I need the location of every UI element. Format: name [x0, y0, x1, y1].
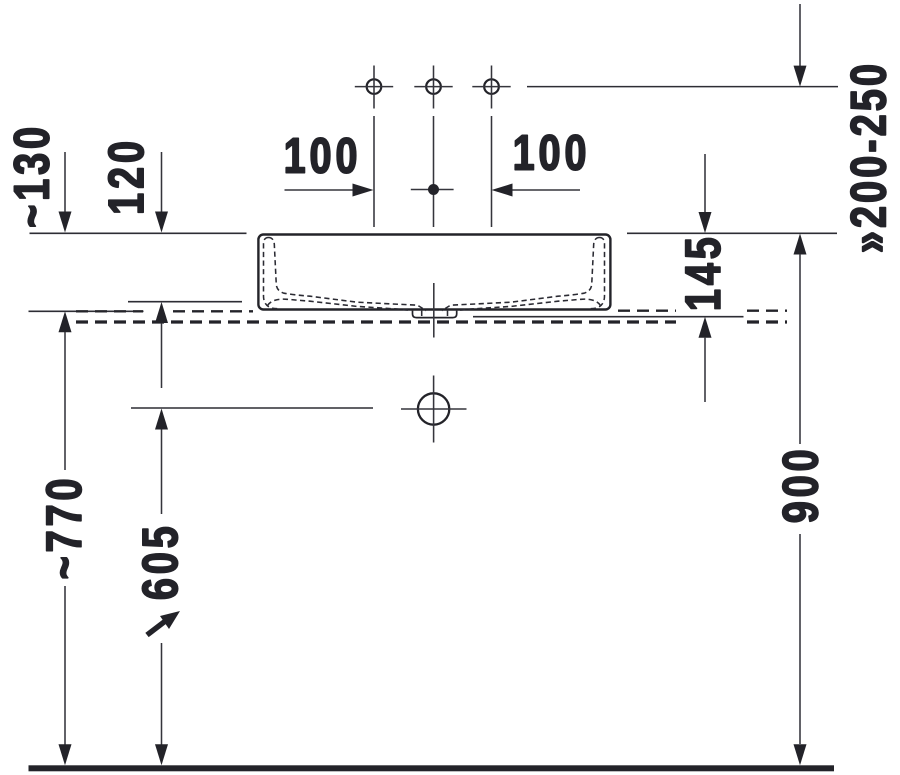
dim column ~130 shaft upper — [64, 152, 66, 212]
floor line — [29, 765, 835, 771]
dim column 120 shaft upper — [161, 152, 163, 212]
dim ~130 arrowhead down — [59, 212, 72, 233]
tap hole 2 crosshair horizontal — [414, 86, 452, 88]
drain tick right — [447, 311, 449, 316]
tap hole 2 crosshair vertical — [433, 66, 435, 109]
dim 900 arrowhead down floor — [794, 744, 807, 765]
label ~130 — [14, 129, 49, 227]
label 100 right — [515, 135, 585, 170]
dim ~770 shaft upper — [64, 332, 66, 470]
dim ~770 arrowhead up — [59, 311, 72, 332]
dim 120 lower stub — [161, 323, 163, 388]
dim 605 arrowhead down floor — [155, 744, 168, 765]
dashed min level line left — [76, 310, 143, 312]
drain outlet crosshair horizontal — [401, 408, 467, 410]
dim 145 lower stub — [704, 338, 706, 402]
basin top reference line right — [627, 232, 837, 234]
dim 200-250 shaft top — [799, 4, 801, 66]
tap hole 1 crosshair horizontal — [355, 86, 393, 88]
dim 145 arrowhead up — [699, 317, 712, 338]
drain outlet circle — [418, 393, 449, 424]
dimension 100 left line — [285, 189, 357, 191]
tap hole 1 crosshair vertical — [373, 66, 375, 109]
dashed min level line right b — [747, 310, 787, 312]
dim ~770 arrowhead down floor — [59, 744, 72, 765]
label 145 — [686, 238, 721, 308]
label 120 — [108, 143, 143, 213]
bowl inner wall right outer — [591, 238, 605, 309]
drain tick left — [421, 311, 423, 316]
label 605 — [142, 527, 177, 598]
drain outlet crosshair vertical — [433, 376, 435, 443]
bowl floor hidden edge right — [457, 299, 601, 310]
dim 605 shaft upper — [161, 430, 163, 515]
countertop line right of drain — [473, 316, 744, 318]
extension line hole 2 — [433, 116, 435, 227]
dimension origin dot line — [411, 189, 454, 191]
tap hole reference line — [527, 86, 838, 88]
dim 200-250 arrowhead down — [794, 66, 807, 87]
dashed min level line right a — [618, 310, 676, 312]
label ~770 — [46, 480, 81, 578]
tap hole 1 — [367, 79, 382, 94]
dim column 145 shaft upper — [704, 154, 706, 213]
label 100 left — [286, 138, 356, 173]
drain flange — [413, 311, 457, 318]
extension line hole 3 — [491, 116, 493, 227]
basin outline — [258, 235, 610, 310]
dimension 100 right arrowhead — [492, 184, 513, 197]
bowl floor hidden edge left — [268, 299, 412, 310]
dim 120 arrowhead down — [155, 212, 168, 233]
dimension 100 right line — [509, 189, 580, 191]
tap hole 2 — [426, 79, 441, 94]
bowl inner wall left outer — [264, 238, 278, 309]
bowl inner wall right inner and floor — [442, 238, 600, 311]
dashed max level line main — [76, 320, 676, 323]
drain outlet height line — [131, 407, 373, 409]
dimension origin dot — [428, 184, 439, 195]
dim 120 arrowhead up — [155, 302, 168, 323]
tap hole 3 — [484, 79, 499, 94]
dim 605 break symbol arrowhead — [160, 611, 180, 629]
dashed max level line right — [747, 320, 787, 323]
bowl inner wall left inner and floor — [269, 238, 427, 311]
countertop thin line left — [29, 310, 144, 312]
countertop 120 line — [128, 301, 242, 303]
extension line hole 1 — [373, 116, 375, 227]
basin top reference line left — [30, 232, 247, 234]
dim 145 arrowhead down — [699, 212, 712, 233]
label 200-250 — [851, 66, 886, 252]
dim 900 shaft lower — [799, 534, 801, 744]
dimension 100 left arrowhead — [353, 184, 374, 197]
dim 605 shaft lower — [161, 643, 163, 745]
label 900 — [783, 451, 818, 522]
centerline through drain — [433, 283, 435, 338]
dim 900 shaft upper — [799, 254, 801, 444]
dim 900 arrowhead up — [794, 234, 807, 255]
dim 605 break symbol line — [147, 619, 168, 635]
tap hole 3 crosshair horizontal — [472, 86, 510, 88]
tap hole 3 crosshair vertical — [491, 66, 493, 109]
dashed min level line mid — [173, 310, 253, 312]
dim ~770 shaft lower — [64, 586, 66, 745]
dim 605 arrowhead up — [155, 409, 168, 430]
